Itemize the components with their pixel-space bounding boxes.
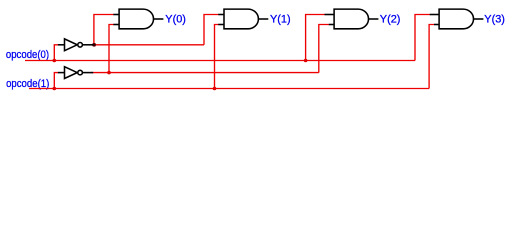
junction dot opcode(0)/AND3 — [304, 59, 308, 63]
junction dot opcode(0)/U1 — [53, 59, 57, 63]
AND gate 3 input A stub — [325, 14, 335, 16]
AND gate 3 output stub — [369, 18, 379, 20]
inverter U2 output stub — [82, 72, 93, 74]
AND gate 2 body — [224, 9, 258, 29]
AND gate 1 output stub — [154, 18, 164, 20]
wire U1 output net horizontal — [91, 44, 204, 46]
AND gate 2 input B stub — [218, 24, 224, 26]
wire opcode(1) rise to AND4 input B — [429, 25, 434, 89]
AND gate 4 input B stub — [434, 24, 439, 26]
AND gate 4 body — [439, 9, 473, 29]
junction dot U2-out/AND1 — [107, 71, 111, 75]
wire U2 output net branch to AND1 input B — [109, 25, 114, 73]
inverter U2 input stub — [58, 72, 65, 74]
wire opcode(1) branch to AND2 input B — [215, 25, 220, 89]
AND gate 3 body — [334, 9, 368, 29]
wire opcode(0) main horizontal — [25, 60, 415, 62]
wire U2 output net rise to AND3 input B — [319, 25, 329, 73]
AND gate 3 input B stub — [329, 24, 334, 26]
svg-text:Y(0): Y(0) — [165, 14, 186, 26]
wire opcode(0) branch to AND3 input A — [306, 15, 325, 61]
junction dot opcode(1)/U2 — [53, 87, 57, 91]
svg-text:Y(2): Y(2) — [380, 14, 401, 26]
wire opcode(0) rise to AND4 input A — [415, 15, 430, 61]
inverter U1 output stub — [82, 44, 93, 46]
AND gate 1 input A stub — [113, 14, 119, 16]
AND gate 2 input A stub — [218, 14, 224, 16]
wire opcode(1) main horizontal — [29, 88, 429, 90]
svg-text:opcode(0): opcode(0) — [6, 49, 49, 61]
wire U1 output net rise to AND2 input A — [204, 15, 219, 45]
wire U2 output net horizontal — [91, 72, 319, 74]
svg-text:Y(3): Y(3) — [484, 14, 505, 26]
inverter U2 triangle — [65, 67, 78, 79]
AND gate 4 input A stub — [430, 14, 439, 16]
inverter U1 triangle — [65, 39, 78, 51]
AND gate 4 output stub — [474, 18, 484, 20]
junction dot U1-out/AND1 — [92, 43, 96, 47]
inverter U1 bubble — [78, 43, 83, 48]
inverter U2 bubble — [78, 70, 83, 75]
inverter U1 input stub — [58, 44, 65, 46]
wire opcode(1) branch to inverter U2 input — [54, 73, 58, 89]
AND gate 1 body — [119, 9, 153, 29]
svg-text:Y(1): Y(1) — [270, 14, 291, 26]
wire U1 output net branch to AND1 input A — [94, 15, 114, 45]
junction dot opcode(1)/AND2 — [213, 87, 217, 91]
AND gate 1 input B stub — [113, 24, 119, 26]
wire opcode(0) branch to inverter U1 input — [54, 45, 58, 61]
AND gate 2 output stub — [258, 18, 268, 20]
